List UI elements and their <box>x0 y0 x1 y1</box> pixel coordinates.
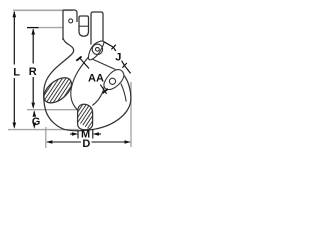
eye inner circle <box>96 47 100 51</box>
clevis middle link top <box>79 16 89 30</box>
extension line saddle (gray) <box>27 109 78 111</box>
svg-text:R: R <box>29 66 37 78</box>
svg-text:G: G <box>32 116 41 128</box>
dimension L <box>13 11 17 129</box>
extension line bottom (gray) <box>8 129 79 131</box>
dimension M <box>70 130 101 139</box>
svg-text:AA: AA <box>88 72 104 84</box>
dimension J <box>104 42 131 74</box>
svg-text:D: D <box>82 138 90 150</box>
extension line R-top gray part <box>38 27 63 29</box>
extension line D-left (gray vertical) <box>45 127 47 148</box>
tip circle <box>109 78 115 84</box>
clevis middle link bottom <box>79 29 89 36</box>
left cross-section (hatched) <box>39 73 76 108</box>
dimension G <box>33 110 37 128</box>
dimension D <box>46 140 131 143</box>
throat inner curve <box>71 57 89 111</box>
extension line R-top black part <box>27 27 39 29</box>
hook tip lozenge <box>104 70 124 90</box>
mouth edge line <box>92 59 116 70</box>
tip point crease <box>121 84 126 102</box>
svg-text:J: J <box>115 51 121 63</box>
latch eye boss <box>88 41 104 60</box>
clevis middle link divider <box>79 25 89 27</box>
dimension AA <box>76 56 108 93</box>
dimension R <box>31 28 35 109</box>
pin hole <box>69 19 73 23</box>
center cross-section (hatched) <box>78 104 93 130</box>
extension line D-right (gray vertical) <box>130 82 132 147</box>
hook outer profile <box>44 38 131 131</box>
eye outer circle <box>92 44 102 54</box>
throat inner curve right part <box>92 86 104 106</box>
svg-text:L: L <box>13 67 20 79</box>
extension line top (gray) <box>13 9 73 11</box>
clevis left ear <box>63 10 77 40</box>
clevis right ear <box>91 12 103 45</box>
